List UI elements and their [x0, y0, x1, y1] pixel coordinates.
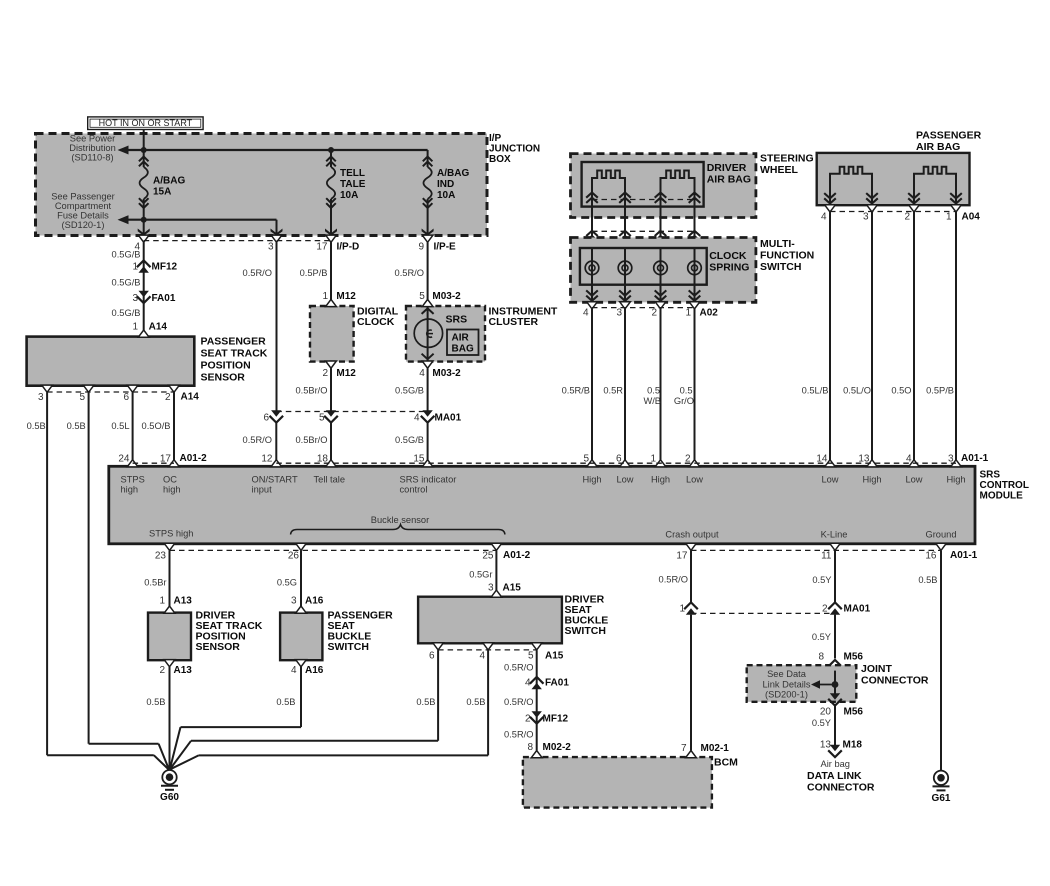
svg-text:A01-1: A01-1 — [950, 550, 978, 561]
svg-text:MA01: MA01 — [844, 604, 871, 615]
svg-text:PASSENGER: PASSENGER — [201, 336, 267, 348]
svg-text:20: 20 — [820, 707, 832, 718]
svg-text:3: 3 — [291, 596, 297, 607]
svg-text:SRS: SRS — [980, 470, 1001, 481]
svg-text:SENSOR: SENSOR — [201, 372, 246, 384]
svg-text:1: 1 — [650, 454, 656, 465]
svg-text:Fuse Details: Fuse Details — [57, 211, 109, 221]
svg-text:4: 4 — [479, 651, 485, 662]
svg-text:1: 1 — [132, 322, 138, 333]
svg-text:High: High — [862, 475, 881, 485]
svg-text:MA01: MA01 — [435, 413, 462, 424]
svg-text:IND: IND — [437, 179, 454, 190]
svg-text:I/P-E: I/P-E — [434, 242, 457, 253]
svg-text:CLOCK: CLOCK — [709, 250, 747, 262]
svg-text:23: 23 — [155, 551, 167, 562]
svg-text:input: input — [252, 485, 273, 495]
svg-text:A14: A14 — [181, 392, 200, 403]
svg-text:Air bag: Air bag — [821, 759, 850, 769]
svg-text:(SD120-1): (SD120-1) — [62, 220, 105, 230]
svg-text:0.5R/O: 0.5R/O — [504, 663, 533, 673]
svg-text:CONNECTOR: CONNECTOR — [861, 675, 929, 687]
svg-text:0.5B: 0.5B — [466, 697, 485, 707]
svg-text:A13: A13 — [174, 665, 193, 676]
svg-text:A13: A13 — [174, 596, 193, 607]
svg-text:11: 11 — [821, 551, 832, 562]
svg-text:3: 3 — [616, 308, 622, 319]
svg-text:M02-2: M02-2 — [543, 742, 572, 753]
svg-text:2: 2 — [685, 454, 691, 465]
svg-text:15: 15 — [413, 454, 425, 465]
svg-text:3: 3 — [38, 392, 44, 403]
svg-text:3: 3 — [132, 293, 138, 304]
svg-text:3: 3 — [488, 583, 494, 594]
svg-text:4: 4 — [419, 368, 425, 379]
svg-text:DATA LINK: DATA LINK — [807, 770, 862, 782]
svg-text:0.5R/O: 0.5R/O — [504, 697, 533, 707]
svg-text:BAG: BAG — [452, 344, 474, 355]
svg-text:High: High — [582, 475, 601, 485]
svg-text:AIR BAG: AIR BAG — [916, 141, 960, 153]
svg-text:Compartment: Compartment — [55, 201, 112, 211]
svg-text:0.5R/O: 0.5R/O — [243, 435, 272, 445]
svg-text:2: 2 — [159, 665, 165, 676]
svg-text:0.5G/B: 0.5G/B — [395, 386, 424, 396]
svg-text:Link Details: Link Details — [762, 680, 810, 690]
svg-text:0.5Y: 0.5Y — [812, 632, 831, 642]
svg-text:7: 7 — [681, 743, 687, 754]
svg-text:AIR BAG: AIR BAG — [707, 174, 751, 186]
svg-text:5: 5 — [583, 454, 589, 465]
svg-text:0.5: 0.5 — [680, 386, 693, 396]
svg-text:A/BAG: A/BAG — [437, 168, 469, 179]
svg-text:Low: Low — [616, 475, 633, 485]
svg-text:SWITCH: SWITCH — [328, 641, 369, 653]
svg-text:SEAT TRACK: SEAT TRACK — [201, 348, 268, 360]
svg-text:0.5G/B: 0.5G/B — [112, 250, 141, 260]
svg-text:FA01: FA01 — [152, 293, 176, 304]
svg-text:0.5R/O: 0.5R/O — [504, 730, 533, 740]
svg-text:1: 1 — [946, 212, 952, 223]
svg-text:CLUSTER: CLUSTER — [489, 316, 539, 328]
svg-text:high: high — [121, 485, 139, 495]
svg-text:0.5P/B: 0.5P/B — [300, 268, 328, 278]
svg-text:Tell tale: Tell tale — [314, 475, 346, 485]
svg-text:(SD110-8): (SD110-8) — [71, 153, 113, 163]
svg-text:MODULE: MODULE — [980, 491, 1024, 502]
svg-text:17: 17 — [676, 551, 688, 562]
svg-text:0.5P/B: 0.5P/B — [926, 386, 954, 396]
svg-text:1: 1 — [685, 308, 691, 319]
svg-text:FA01: FA01 — [545, 678, 569, 689]
svg-text:Low: Low — [905, 475, 922, 485]
svg-text:3: 3 — [268, 242, 274, 253]
svg-text:0.5B: 0.5B — [27, 421, 46, 431]
svg-text:2: 2 — [904, 212, 910, 223]
svg-text:17: 17 — [316, 242, 328, 253]
svg-text:0.5B: 0.5B — [416, 697, 435, 707]
svg-text:9: 9 — [418, 242, 424, 253]
svg-text:2: 2 — [165, 392, 171, 403]
svg-text:4: 4 — [906, 454, 912, 465]
svg-text:A16: A16 — [305, 596, 324, 607]
svg-text:G60: G60 — [160, 792, 179, 803]
svg-text:12: 12 — [261, 454, 273, 465]
svg-text:I/P-D: I/P-D — [337, 242, 360, 253]
svg-text:G61: G61 — [932, 793, 951, 804]
svg-text:0.5Br/O: 0.5Br/O — [295, 386, 327, 396]
svg-text:Ground: Ground — [925, 530, 956, 540]
svg-text:HOT IN ON OR START: HOT IN ON OR START — [99, 118, 193, 128]
svg-text:8: 8 — [818, 652, 824, 663]
svg-text:AIR: AIR — [452, 333, 470, 344]
svg-text:1: 1 — [159, 596, 165, 607]
svg-text:1: 1 — [132, 262, 138, 273]
svg-text:DRIVER: DRIVER — [707, 162, 747, 174]
svg-text:A14: A14 — [149, 322, 168, 333]
svg-text:10A: 10A — [437, 190, 455, 201]
svg-text:0.5B: 0.5B — [67, 421, 86, 431]
svg-text:2: 2 — [322, 368, 328, 379]
svg-text:MULTI-: MULTI- — [760, 238, 795, 250]
svg-text:0.5Y: 0.5Y — [812, 718, 831, 728]
svg-text:A01-1: A01-1 — [961, 453, 989, 464]
svg-text:Distribution: Distribution — [69, 143, 116, 153]
svg-text:0.5L: 0.5L — [111, 421, 129, 431]
svg-text:4: 4 — [583, 308, 589, 319]
svg-text:4: 4 — [821, 212, 827, 223]
svg-text:SPRING: SPRING — [709, 262, 749, 274]
svg-text:1: 1 — [322, 291, 328, 302]
svg-text:A01-2: A01-2 — [180, 453, 208, 464]
svg-text:A02: A02 — [700, 308, 719, 319]
svg-text:0.5G/B: 0.5G/B — [395, 435, 424, 445]
svg-text:0.5O: 0.5O — [891, 386, 911, 396]
svg-text:4: 4 — [525, 678, 531, 689]
svg-text:2: 2 — [525, 714, 531, 725]
svg-text:0.5G/B: 0.5G/B — [112, 278, 141, 288]
svg-text:0.5Gr: 0.5Gr — [469, 570, 492, 580]
svg-text:5: 5 — [79, 392, 85, 403]
svg-text:I/P: I/P — [489, 133, 502, 144]
svg-text:SRS: SRS — [446, 314, 468, 326]
svg-text:25: 25 — [482, 551, 494, 562]
svg-text:M18: M18 — [843, 740, 863, 751]
svg-text:6: 6 — [429, 651, 435, 662]
svg-text:K-Line: K-Line — [821, 530, 848, 540]
svg-text:STEERING: STEERING — [760, 153, 814, 165]
svg-text:0.5B: 0.5B — [146, 697, 165, 707]
svg-text:0.5: 0.5 — [647, 386, 660, 396]
svg-text:26: 26 — [288, 551, 300, 562]
svg-text:See Power: See Power — [70, 134, 115, 144]
svg-text:18: 18 — [317, 454, 329, 465]
svg-text:A15: A15 — [545, 651, 564, 662]
svg-text:Low: Low — [686, 475, 703, 485]
svg-text:SWITCH: SWITCH — [760, 261, 801, 273]
svg-text:0.5B: 0.5B — [918, 575, 937, 585]
svg-text:A16: A16 — [305, 665, 324, 676]
svg-text:STPS high: STPS high — [149, 529, 193, 539]
svg-text:W/B: W/B — [643, 396, 661, 406]
svg-text:24: 24 — [118, 454, 130, 465]
svg-text:M56: M56 — [844, 707, 864, 718]
svg-text:0.5B: 0.5B — [276, 697, 295, 707]
svg-text:0.5Br: 0.5Br — [144, 578, 166, 588]
svg-text:8: 8 — [527, 742, 533, 753]
svg-text:BCM: BCM — [714, 757, 738, 769]
svg-text:PASSENGER: PASSENGER — [916, 130, 982, 142]
svg-text:M02-1: M02-1 — [701, 743, 730, 754]
svg-text:17: 17 — [160, 454, 172, 465]
svg-text:M03-2: M03-2 — [432, 291, 461, 302]
svg-text:(SD200-1): (SD200-1) — [765, 690, 808, 700]
svg-text:high: high — [163, 485, 181, 495]
svg-text:M56: M56 — [844, 652, 864, 663]
svg-text:TALE: TALE — [340, 179, 366, 190]
svg-text:13: 13 — [820, 740, 832, 751]
svg-text:A/BAG: A/BAG — [153, 176, 185, 187]
svg-text:13: 13 — [858, 454, 870, 465]
svg-text:0.5Y: 0.5Y — [812, 575, 831, 585]
svg-text:6: 6 — [123, 392, 129, 403]
svg-text:0.5R/O: 0.5R/O — [659, 575, 688, 585]
svg-text:10A: 10A — [340, 190, 358, 201]
svg-text:Buckle sensor: Buckle sensor — [371, 515, 429, 525]
svg-text:0.5G/B: 0.5G/B — [112, 308, 141, 318]
svg-text:BOX: BOX — [489, 154, 511, 165]
svg-text:FUNCTION: FUNCTION — [760, 250, 814, 262]
svg-text:0.5R: 0.5R — [603, 386, 623, 396]
svg-text:3: 3 — [863, 212, 869, 223]
svg-text:CLOCK: CLOCK — [357, 316, 395, 328]
svg-text:High: High — [946, 475, 965, 485]
svg-text:STPS: STPS — [121, 475, 145, 485]
svg-text:POSITION: POSITION — [201, 360, 251, 372]
svg-text:See Data: See Data — [767, 669, 807, 679]
svg-text:A04: A04 — [962, 212, 981, 223]
svg-text:4: 4 — [291, 665, 297, 676]
svg-text:Crash output: Crash output — [665, 530, 719, 540]
svg-text:M03-2: M03-2 — [432, 368, 461, 379]
svg-text:A15: A15 — [503, 583, 522, 594]
svg-text:0.5L/O: 0.5L/O — [843, 386, 871, 396]
svg-text:14: 14 — [816, 454, 828, 465]
svg-text:1: 1 — [679, 604, 685, 615]
svg-text:0.5O/B: 0.5O/B — [142, 421, 171, 431]
svg-text:MF12: MF12 — [543, 714, 569, 725]
svg-text:SRS indicator: SRS indicator — [400, 475, 457, 485]
svg-text:JUNCTION: JUNCTION — [489, 144, 540, 155]
svg-text:CONNECTOR: CONNECTOR — [807, 782, 875, 794]
svg-text:5: 5 — [319, 413, 325, 424]
svg-text:0.5R/O: 0.5R/O — [395, 268, 424, 278]
svg-text:4: 4 — [414, 413, 420, 424]
svg-text:6: 6 — [263, 413, 269, 424]
svg-text:M12: M12 — [336, 368, 356, 379]
svg-text:2: 2 — [822, 604, 828, 615]
svg-text:ON/START: ON/START — [252, 475, 298, 485]
svg-text:TELL: TELL — [340, 168, 365, 179]
svg-text:SWITCH: SWITCH — [565, 625, 606, 637]
svg-text:5: 5 — [528, 651, 534, 662]
svg-text:control: control — [400, 485, 428, 495]
svg-text:6: 6 — [616, 454, 622, 465]
svg-text:2: 2 — [651, 308, 657, 319]
svg-text:JOINT: JOINT — [861, 663, 893, 675]
svg-text:High: High — [651, 475, 670, 485]
svg-text:M12: M12 — [336, 291, 356, 302]
svg-text:15A: 15A — [153, 187, 171, 198]
svg-text:0.5G: 0.5G — [277, 578, 297, 588]
svg-text:0.5R/O: 0.5R/O — [243, 268, 272, 278]
svg-text:SENSOR: SENSOR — [196, 641, 241, 653]
svg-text:0.5Br/O: 0.5Br/O — [295, 435, 327, 445]
svg-text:CONTROL: CONTROL — [980, 480, 1029, 491]
svg-text:OC: OC — [163, 475, 177, 485]
svg-text:WHEEL: WHEEL — [760, 164, 799, 176]
svg-text:MF12: MF12 — [152, 262, 178, 273]
svg-text:0.5L/B: 0.5L/B — [802, 386, 829, 396]
svg-text:5: 5 — [419, 291, 425, 302]
svg-text:Low: Low — [821, 475, 838, 485]
svg-text:Gr/O: Gr/O — [674, 396, 694, 406]
svg-text:16: 16 — [925, 551, 937, 562]
svg-text:0.5R/B: 0.5R/B — [562, 386, 590, 396]
svg-text:A01-2: A01-2 — [503, 550, 531, 561]
svg-text:3: 3 — [948, 454, 954, 465]
svg-text:See Passenger: See Passenger — [51, 192, 115, 202]
